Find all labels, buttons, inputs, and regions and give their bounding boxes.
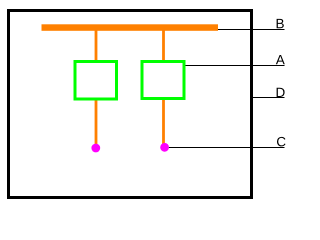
wire leader-line A xyxy=(185,65,285,67)
node C2 (magenta dot right) xyxy=(160,143,169,152)
wire drop line 1 (orange) xyxy=(95,27,98,146)
box A2 (green square right) xyxy=(142,62,184,99)
frame D (enclosure border) xyxy=(9,11,252,198)
node C1 (magenta dot left) xyxy=(91,144,100,153)
label D xyxy=(277,88,285,97)
box A1 (green square left) xyxy=(75,62,117,100)
label C xyxy=(277,137,286,147)
bus bar B (orange horizontal) xyxy=(42,24,219,31)
label B xyxy=(277,19,284,28)
wire leader-line D xyxy=(251,97,285,99)
wire leader-line C xyxy=(166,147,285,149)
wire drop line 2 (orange) xyxy=(162,27,165,145)
label A xyxy=(276,55,285,64)
wire leader-line B xyxy=(216,29,285,31)
